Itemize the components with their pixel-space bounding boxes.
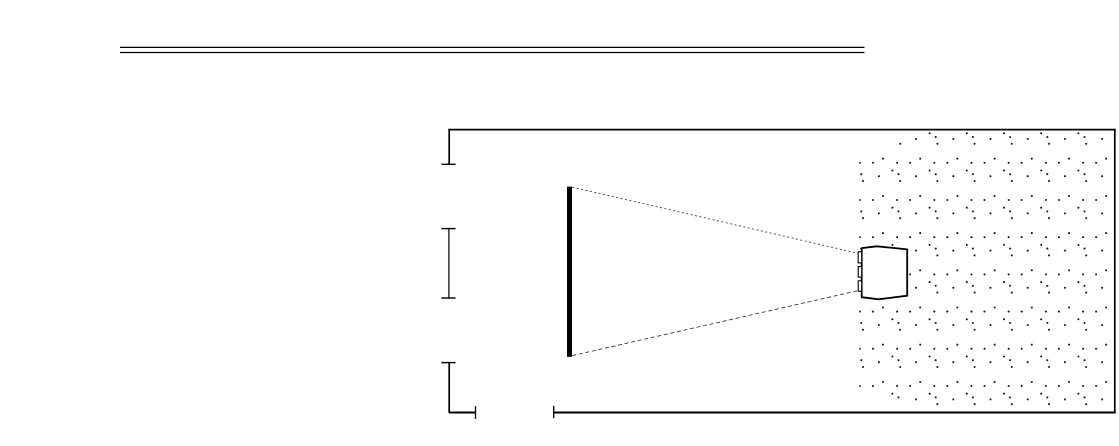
tick bottom-left door jamb xyxy=(475,406,477,419)
projection line bottom xyxy=(572,291,858,356)
wall bottom right segment xyxy=(554,412,1116,414)
wall bottom left segment xyxy=(449,412,475,414)
tick bottom wall left end xyxy=(553,406,555,418)
lens slot 3 xyxy=(858,281,862,292)
projector body xyxy=(862,246,908,299)
cap under upper segment xyxy=(441,163,455,165)
screen (thick bar) xyxy=(567,187,572,357)
wall top xyxy=(448,129,1115,131)
wall left upper segment xyxy=(448,129,450,165)
double rule top xyxy=(120,46,865,48)
stipple dots region xyxy=(859,132,1107,405)
wall left lower segment xyxy=(441,362,455,364)
window segment left wall xyxy=(441,228,455,230)
lens slot 1 xyxy=(858,252,862,263)
projection line top xyxy=(572,187,858,253)
lens slot 2 xyxy=(858,267,862,278)
wall right xyxy=(1114,129,1116,413)
